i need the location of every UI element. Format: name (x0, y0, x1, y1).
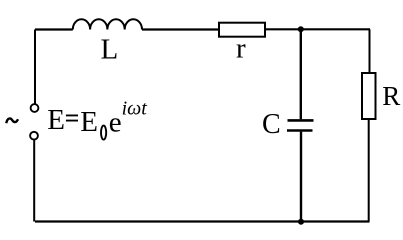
svg-text:E: E (80, 106, 98, 138)
svg-text:=: = (65, 103, 80, 132)
svg-text:R: R (382, 81, 400, 111)
svg-text:C: C (262, 109, 281, 140)
svg-text:iωt: iωt (122, 97, 148, 119)
svg-text:r: r (236, 33, 246, 65)
svg-text:e: e (109, 106, 122, 138)
svg-text:L: L (101, 33, 119, 65)
svg-text:E: E (47, 104, 65, 136)
